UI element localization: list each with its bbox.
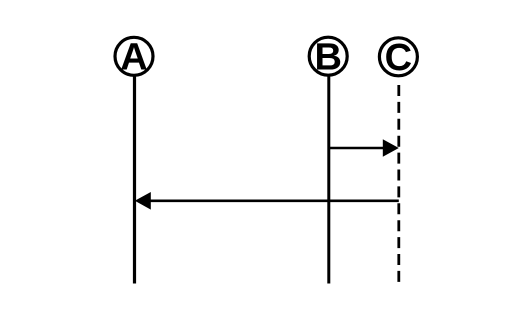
node A xyxy=(115,36,153,78)
lifeline A (wire) xyxy=(133,75,136,284)
arrow C to A (wire) xyxy=(135,192,399,210)
svg-text:C: C xyxy=(385,37,412,79)
svg-text:B: B xyxy=(314,36,341,78)
node B xyxy=(309,36,347,78)
svg-text:A: A xyxy=(120,36,147,78)
lifeline B (wire) xyxy=(327,75,330,284)
lifeline C (dashed wire) xyxy=(397,85,400,282)
arrow B to C (wire) xyxy=(329,139,399,157)
node C xyxy=(379,37,417,79)
